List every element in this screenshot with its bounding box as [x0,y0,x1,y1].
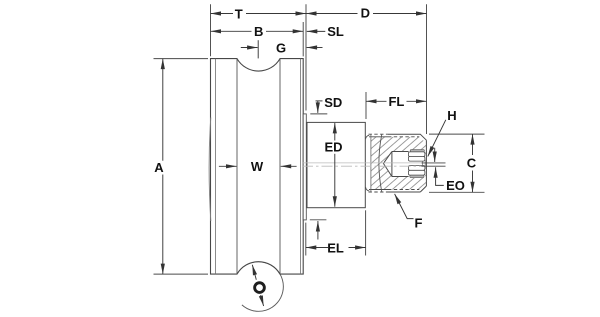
dimension ED down arrow [334,154,336,207]
extension line C top [429,133,485,135]
thread bar gray top [410,150,424,152]
extension line EL left [305,223,307,256]
thread bar row1 [408,152,425,157]
dimension O up arrow [252,265,256,280]
stud bottom edge solid [388,191,420,193]
stud top edge dashed left [369,133,389,135]
dimension SD tick [316,100,323,102]
stud centerline [302,162,422,164]
stud bore white cutout [383,150,425,179]
svg-text:EL: EL [327,240,344,255]
dimension EL [306,247,328,249]
extension line SD (washer top) [310,113,327,115]
extension line washer bottom [310,219,327,221]
dimension B [211,30,252,32]
dimension SL arrow and label [307,30,326,32]
extension line EL right [365,210,367,255]
dimension G left arrow [241,47,258,49]
dimension T [211,13,234,15]
bore cone base line [391,152,393,177]
svg-text:ED: ED [324,140,342,155]
svg-text:SL: SL [327,24,344,39]
extension line A bottom [154,273,209,275]
thread bar row3 [408,166,425,171]
bore cone drill point [383,152,392,177]
bore pilot bottom line [392,176,409,178]
leader F [395,194,414,219]
extension line wheel right face [302,22,304,56]
dimension SD arrow [317,101,319,113]
dimension EO down arrow [434,148,436,162]
hub-to-stud fillet bottom [366,187,370,191]
svg-text:C: C [467,155,477,170]
wheel centerline dark end tick [422,165,446,167]
stud right end face [425,140,427,186]
wheel left chamfer line [215,59,217,275]
dimension D [306,13,358,15]
svg-text:B: B [254,24,263,39]
extension line stud end (D/FL right) [426,4,428,134]
stud hatch cross-section [371,137,426,190]
extension line FL left (hub face) [365,92,367,119]
svg-text:D: D [361,5,370,20]
groove left shoulder line [236,59,238,275]
dimension G right arrow [307,47,323,49]
stud top inner line dashed [388,136,419,138]
svg-text:F: F [415,215,423,230]
svg-text:H: H [447,108,456,123]
extension line C bottom [429,191,485,193]
svg-text:T: T [235,6,243,21]
hub-to-stud fillet top [366,135,370,139]
extension line washer face [305,4,307,110]
dimension G tick [257,40,259,58]
leader H [428,120,446,157]
wheel left tread crown arc [209,118,211,222]
dimension O down arrow [261,295,264,306]
stud bottom edge dashed left [369,191,389,193]
svg-text:EO: EO [446,178,465,193]
washer bottom up arrow [317,221,319,240]
dimension W left arrow [219,165,237,167]
stud top inner line solid [369,136,388,138]
dimension ED up arrow [334,123,336,141]
wheel right chamfer line [300,59,302,275]
svg-text:SD: SD [324,95,342,110]
phantom groove-root circle arc (O reference) [242,262,283,312]
dimension W right arrow [281,165,297,167]
bore mouth edge lines in center gap [422,161,424,166]
dimension FL [366,100,387,102]
stud top edge solid [388,134,426,140]
dimension C [472,134,474,155]
stud left boundary line [370,134,372,191]
stud bottom inner line dashed [388,189,419,191]
dimension EO leader with up arrow [436,167,444,185]
svg-text:FL: FL [388,94,404,109]
dimension A [162,59,164,161]
svg-text:W: W [251,159,264,174]
thread bar row4 [408,170,425,175]
wheel outline with V-groove top and bottom [211,59,304,275]
seal washer disc [303,114,306,220]
stud bottom chamfer [420,186,426,192]
stud left transition arc [379,134,382,191]
svg-text:G: G [276,40,286,55]
wheel centerline dash-dot [302,165,422,167]
extension line A top [154,58,209,60]
bore pilot top line [392,151,409,153]
hub cylinder ED [307,122,365,207]
groove right shoulder line [279,59,281,275]
thread bar gray bottom [410,175,424,177]
thread bar row2 [408,157,425,162]
stud centerline dark end tick [422,162,446,164]
svg-text:A: A [154,160,164,175]
extension line T/B left [210,4,212,56]
stud bottom inner line solid [369,189,388,191]
